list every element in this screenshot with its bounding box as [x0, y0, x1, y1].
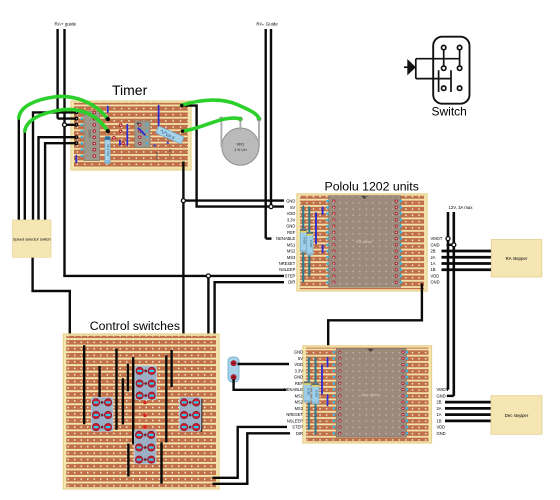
svg-text:MS2: MS2: [287, 249, 296, 254]
svg-text:100 nF: 100 nF: [155, 152, 159, 162]
svg-text:2B: 2B: [431, 249, 436, 254]
svg-text:MS1: MS1: [295, 393, 304, 398]
svg-text:RA- Guide: RA- Guide: [256, 21, 278, 26]
svg-text:DIR: DIR: [296, 431, 303, 436]
svg-text:MS2: MS2: [295, 400, 304, 405]
svg-text:VDD: VDD: [437, 425, 446, 430]
svg-text:1B: 1B: [431, 267, 436, 272]
svg-text:1A: 1A: [437, 412, 442, 417]
svg-text:RA stepper: RA stepper: [506, 256, 528, 261]
svg-text:VDD: VDD: [287, 211, 296, 216]
svg-text:4060: 4060: [88, 130, 92, 138]
svg-text:NENABLE: NENABLE: [284, 387, 303, 392]
svg-text:NENABLE: NENABLE: [276, 236, 295, 241]
svg-text:GND: GND: [294, 350, 303, 355]
svg-text:GND: GND: [437, 393, 446, 398]
svg-text:VR1: VR1: [237, 142, 246, 147]
svg-text:5V: 5V: [298, 356, 303, 361]
svg-text:2A: 2A: [431, 255, 436, 260]
svg-text:Speed selector switch: Speed selector switch: [13, 237, 51, 242]
svg-text:Dec stepper: Dec stepper: [505, 413, 529, 418]
svg-text:1A: 1A: [431, 261, 436, 266]
svg-text:2B: 2B: [437, 400, 442, 405]
svg-text:5V: 5V: [290, 205, 295, 210]
svg-text:3.3V: 3.3V: [295, 368, 304, 373]
svg-text:MS3: MS3: [295, 406, 304, 411]
svg-text:GND: GND: [437, 431, 446, 436]
svg-text:GND: GND: [286, 199, 295, 204]
svg-text:VMOT: VMOT: [431, 236, 443, 241]
svg-text:NSLEEP: NSLEEP: [287, 418, 303, 423]
svg-text:NRESET: NRESET: [279, 261, 296, 266]
svg-text:2A: 2A: [437, 406, 442, 411]
svg-text:REF: REF: [295, 381, 304, 386]
svg-text:100 K: 100 K: [306, 388, 310, 396]
svg-text:RA+ guide: RA+ guide: [55, 21, 77, 26]
svg-text:STEP: STEP: [292, 425, 303, 430]
svg-text:Timer: Timer: [112, 82, 148, 98]
svg-text:NSLEEP: NSLEEP: [279, 267, 295, 272]
svg-text:Switch: Switch: [432, 105, 467, 119]
svg-text:GND: GND: [431, 242, 440, 247]
svg-text:GND: GND: [431, 280, 440, 285]
svg-text:3.3V: 3.3V: [287, 217, 296, 222]
svg-text:100 K lin: 100 K lin: [106, 144, 110, 156]
svg-text:STEP: STEP: [285, 273, 296, 278]
svg-text:RA driver: RA driver: [356, 239, 373, 244]
svg-text:12V, 3A max: 12V, 3A max: [449, 205, 474, 210]
svg-text:MS3: MS3: [287, 255, 296, 260]
svg-text:GND: GND: [294, 375, 303, 380]
svg-text:VMOT: VMOT: [437, 387, 449, 392]
svg-text:Control switches: Control switches: [90, 319, 180, 333]
svg-text:100 K: 100 K: [315, 390, 319, 398]
svg-text:REF: REF: [287, 230, 296, 235]
svg-text:Dec driver: Dec driver: [362, 392, 381, 397]
svg-text:GND: GND: [286, 224, 295, 229]
svg-text:100 K: 100 K: [302, 237, 306, 245]
svg-text:VDD: VDD: [294, 362, 303, 367]
svg-text:100 K: 100 K: [309, 240, 313, 248]
svg-text:DIR: DIR: [288, 280, 295, 285]
svg-text:MS1: MS1: [287, 242, 296, 247]
svg-text:VDD: VDD: [431, 273, 440, 278]
svg-text:1 K Lin: 1 K Lin: [234, 147, 246, 152]
svg-text:10 nF: 10 nF: [168, 149, 172, 157]
svg-text:1B: 1B: [437, 418, 442, 423]
svg-text:NRESET: NRESET: [286, 412, 303, 417]
svg-text:Pololu 1202 units: Pololu 1202 units: [325, 180, 419, 194]
